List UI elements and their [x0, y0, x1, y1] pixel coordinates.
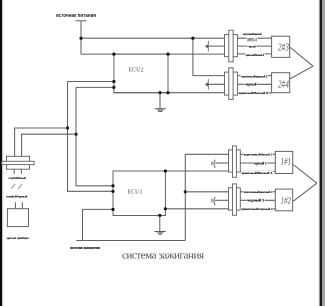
connector C1 body [225, 35, 238, 57]
wire J5 pin down 2 [20, 169, 22, 174]
connector C3 blade [233, 146, 237, 177]
wire break slash 1 [11, 184, 15, 189]
connector C2 body [225, 72, 238, 95]
wire plug P4 diagonal [293, 183, 317, 201]
wire J5 pin down 1 [13, 169, 15, 174]
wire net Q branch to connector [22, 134, 76, 156]
wire C4 pin3 to plug box [240, 208, 275, 210]
wire net P branch to connector [15, 128, 68, 156]
wire C4 pin2 to plug box [240, 199, 275, 201]
border right edge [319, 0, 325, 306]
wire branch to coil4 top pin [185, 191, 228, 193]
label C4 wire1 color [244, 190, 273, 194]
junction ECU2 top-left [112, 53, 115, 56]
ECU2 box U2 [114, 54, 168, 93]
junction ECU1 ground tap [158, 214, 161, 217]
wire C1 pin2 to plug box [237, 45, 271, 47]
svg-text:черный 1: черный 1 [247, 199, 264, 203]
wire S4 to connector C4 [215, 199, 229, 201]
wire ECU2 bottom edge to coil2 [114, 92, 225, 94]
label C1 wire3 color [245, 53, 264, 57]
wire power rail horizontal [81, 37, 225, 39]
wire drop to coil2 supply [193, 38, 225, 75]
wire C1 pin3 to plug box [237, 53, 271, 55]
svg-text:красный/белый 2: красный/белый 2 [246, 53, 265, 57]
wire C3 pin1 to plug box [240, 153, 275, 155]
wire S2 to connector C2 [208, 83, 225, 85]
connector J5 cross bar [2, 161, 34, 164]
junction ECU2 top-right [166, 53, 169, 56]
label C3 wire3 color [241, 171, 273, 175]
wire C2 pin2 to plug box [237, 83, 271, 85]
junction ECU2 left pin P [112, 80, 115, 83]
junction ECU1 pin ground [111, 208, 114, 211]
svg-text:голубой/черный: голубой/черный [6, 195, 27, 199]
junction ECU2 bottom-right [166, 91, 169, 94]
wire C3 pin2 to plug box [240, 162, 275, 164]
junction ECU1 pin Q [111, 184, 114, 187]
capacitor S4 [212, 197, 215, 205]
svg-text:источник заземления: источник заземления [70, 246, 100, 250]
wire ECU2 top edge to coil1 [81, 53, 225, 55]
junction net Q branch [74, 133, 77, 136]
border left edge [0, 0, 3, 306]
svg-text:черный: черный [248, 45, 256, 49]
svg-text:2#4: 2#4 [278, 79, 289, 91]
svg-text:черный: черный [245, 83, 257, 87]
wire C4 pin1 to plug box [240, 191, 275, 193]
wire ECU2 pin to net P [68, 81, 114, 83]
wire sensor pin 1 [14, 202, 16, 208]
wire plug P3 diagonal [293, 165, 317, 184]
junction power rail / coil2 drop [191, 37, 194, 40]
svg-text:источник питания: источник питания [56, 13, 96, 19]
connector C4 blade [233, 184, 237, 215]
svg-text:голубой/белый: голубой/белый [9, 176, 26, 180]
capacitor S2 [205, 79, 208, 89]
label C1 wire2 color [248, 45, 257, 49]
junction ECU1 top-right [164, 169, 167, 172]
junction ECU2 ground tap [158, 91, 161, 94]
junction ECU2 left pin Q [112, 86, 115, 89]
ground symbol below ECU1 [155, 232, 166, 235]
label C2 wire1 color [241, 74, 268, 78]
wire ECU1 right pin to coil4 [165, 208, 228, 210]
capacitor S3 [212, 160, 215, 168]
sensor box [7, 209, 28, 227]
wire C2 pin3 to plug box [237, 92, 271, 94]
wire break slash 2 [18, 184, 22, 189]
wire ECU1 top edge to coil3 [165, 170, 228, 172]
spark plug box P3 [275, 151, 292, 173]
wire sensor pin 2 [21, 202, 23, 208]
svg-text:коричневый/белый 1: коричневый/белый 1 [244, 152, 272, 156]
svg-text:коричневый/красный 3: коричневый/красный 3 [241, 74, 267, 78]
svg-text:ECU2: ECU2 [129, 68, 144, 74]
spark plug box P4 [275, 189, 292, 211]
ECU1 box U1 [113, 171, 165, 216]
svg-text:система зажигания: система зажигания [122, 250, 204, 262]
wire C3 pin3 to plug box [240, 170, 275, 172]
svg-text:Э6/П1-2: Э6/П1-2 [247, 37, 257, 41]
label C3 wire2 color [253, 161, 267, 165]
wire C1 pin1 to plug box [237, 37, 271, 39]
wire ground rail riser [185, 154, 228, 240]
connector C1 blade [229, 30, 233, 62]
label C1 wire1 color [242, 32, 262, 36]
junction power rail / source [79, 37, 82, 40]
junction ECU1 pin P [111, 190, 114, 193]
wire S3 to connector C3 [215, 162, 229, 164]
label C1 wire1 code [247, 37, 258, 41]
wire power source vertical [80, 21, 82, 54]
svg-text:датчик прибора: датчик прибора [7, 236, 29, 240]
svg-text:гранатовый/черный 1: гранатовый/черный 1 [241, 207, 273, 211]
wire ground rail [76, 240, 185, 242]
label C4 wire2 color [247, 199, 265, 203]
svg-text:ECU1: ECU1 [128, 190, 143, 196]
label C3 wire1 color [244, 152, 273, 156]
wire plug P2 diagonal [290, 66, 313, 79]
wire ECU1 ground drop [159, 216, 161, 232]
wire plug P1 diagonal [290, 47, 313, 66]
label C2 wire2 color [244, 83, 257, 87]
ground symbol below ECU2 [155, 109, 166, 112]
junction riser / coil4 branch [184, 190, 187, 193]
wire ECU1 ground pin to rail [83, 209, 114, 240]
wire C2 pin1 to plug box [237, 75, 271, 77]
svg-text:1#1: 1#1 [281, 158, 292, 168]
connector C3 body [229, 150, 241, 172]
svg-text:красный/белый 3: красный/белый 3 [239, 91, 269, 95]
wire S1 to connector C1 [208, 45, 225, 47]
svg-text:1#2: 1#2 [281, 196, 292, 206]
svg-text:коричневый/красный 1: коричневый/красный 1 [244, 190, 272, 194]
connector J5 left assembly body [7, 156, 30, 169]
wire ECU2 pin to net Q [76, 86, 114, 88]
svg-text:коричневый/красный: коричневый/красный [243, 32, 262, 36]
svg-text:2#3: 2#3 [278, 42, 289, 54]
connector C2 blade [229, 68, 233, 100]
svg-text:черный 1: черный 1 [254, 161, 267, 165]
capacitor S1 [205, 41, 208, 51]
power source terminal bar [76, 20, 87, 22]
spark plug box P1 [272, 36, 290, 57]
spark plug box P2 [272, 73, 290, 93]
wire net P vertical to ECU1 [68, 82, 114, 192]
connector C4 body [229, 188, 241, 210]
label C4 wire3 color [240, 207, 273, 211]
junction net P branch [66, 126, 69, 129]
junction ECU1 right pin [164, 207, 167, 210]
wire ECU2 ground drop [159, 93, 161, 109]
svg-text:красный/белый 1: красный/белый 1 [242, 171, 273, 175]
wire net Q vertical to ECU1 [76, 87, 113, 185]
label C2 wire3 color [238, 91, 268, 95]
